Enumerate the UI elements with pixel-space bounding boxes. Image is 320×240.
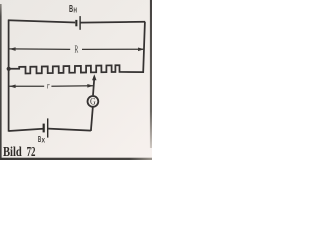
node: junction of comb and left wire [7, 67, 11, 71]
svg-text:X: X [42, 139, 46, 145]
wire: wiper down to galvanometer [93, 79, 94, 96]
svg-text:B: B [69, 4, 73, 15]
svg-text:H: H [74, 8, 77, 15]
wiper arrow on comb [92, 74, 96, 80]
wire: left vertical side [8, 20, 10, 132]
svg-text:G: G [90, 96, 96, 106]
scan edge: right [150, 0, 152, 148]
svg-text:r: r [47, 80, 50, 90]
scan edge: bottom [0, 158, 152, 160]
dimension line r with arrows [9, 85, 93, 88]
wire: galvanometer to bottom wire [91, 108, 93, 131]
wire: comb resistor R with right side lead [9, 22, 145, 74]
scan edge: left [0, 4, 2, 160]
galvanometer G [88, 96, 99, 107]
wire: bottom, left of battery BX [9, 129, 43, 131]
dimension line R with arrows [9, 48, 144, 51]
battery BX [43, 118, 49, 137]
paper background [0, 0, 152, 160]
battery BH [75, 16, 81, 30]
svg-text:72: 72 [27, 144, 36, 159]
svg-text:R: R [75, 44, 79, 56]
wire: bottom, right of battery BX [48, 129, 91, 131]
wire: top, right of battery BH [80, 21, 145, 24]
svg-text:Bild: Bild [3, 144, 22, 159]
wire: top, left of battery BH [8, 20, 75, 22]
